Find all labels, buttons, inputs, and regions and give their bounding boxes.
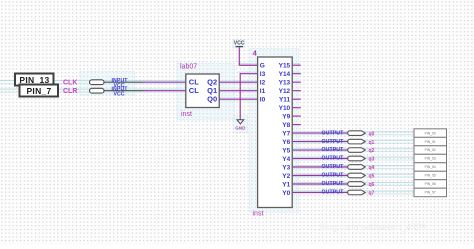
svg-text:I2: I2 [260,80,266,87]
svg-text:inst: inst [253,210,264,217]
svg-text:Y11: Y11 [279,97,291,104]
wire guide CLK row [0,64,446,191]
svg-text:Y14: Y14 [279,71,291,78]
svg-text:blog.csdn.net/weixin_4399: blog.csdn.net/weixin_4399 [320,222,426,232]
svg-text:PIN_7: PIN_7 [26,86,51,96]
svg-text:VCC: VCC [114,92,125,98]
output pin q2 [322,147,375,154]
svg-text:OUTPUT: OUTPUT [322,139,345,145]
svg-text:q6: q6 [369,182,375,188]
output pin q3 [322,156,375,163]
svg-text:lab07: lab07 [180,64,197,71]
wire GND to I3 [240,74,257,120]
wire CLK to lab07 [143,81,186,83]
pin assignment box PIN_53 for q3 [414,154,447,163]
svg-text:OUTPUT: OUTPUT [322,181,345,187]
svg-text:q7: q7 [369,191,375,197]
svg-text:CL: CL [189,86,199,95]
svg-text:Y3: Y3 [282,164,290,171]
wire Y0 to output q7 [292,191,349,193]
svg-text:VCC: VCC [234,41,245,47]
svg-text:PIN_53: PIN_53 [425,157,436,161]
svg-text:PIN_51: PIN_51 [425,140,436,144]
pin assignment box PIN_57 for q7 [414,188,447,197]
pin assignment box PIN_55 for q5 [414,171,447,180]
svg-text:PIN_55: PIN_55 [425,174,436,178]
svg-text:PIN_52: PIN_52 [425,148,436,152]
svg-text:Y1: Y1 [282,181,290,188]
svg-text:PIN_56: PIN_56 [425,182,436,186]
selection box inputs [80,40,299,213]
block decoder U2 [253,57,293,217]
svg-text:I3: I3 [260,71,266,78]
stub Y8 [292,124,301,126]
wire Y6 to output q1 [292,141,349,143]
svg-text:OUTPUT: OUTPUT [322,164,345,170]
pin assignment box PIN_54 for q4 [414,163,447,172]
svg-text:Q0: Q0 [207,95,217,104]
svg-text:q5: q5 [369,174,375,180]
wire Q1-I1 [219,90,257,92]
svg-text:GND: GND [235,125,246,130]
output pin q1 [322,139,375,146]
svg-text:PIN_50: PIN_50 [425,131,436,135]
svg-text:PIN_54: PIN_54 [425,165,436,169]
svg-text:OUTPUT: OUTPUT [322,190,345,196]
svg-text:Y0: Y0 [282,190,290,197]
output pin q4 [322,164,375,171]
wire Y7 to output q0 [292,132,349,134]
wire Y1 to output q6 [292,183,349,185]
svg-text:Y4: Y4 [282,156,290,163]
svg-text:Y12: Y12 [279,88,291,95]
output pin q6 [322,181,375,188]
svg-text:I0: I0 [260,97,266,104]
input pin CLK [90,78,144,89]
pin assignment box PIN_7 [20,85,59,97]
wire guide lines lower edges [0,81,446,194]
stub Y15 [292,64,301,66]
stub Y13 [292,81,301,83]
svg-text:OUTPUT: OUTPUT [322,130,345,136]
output pin q0 [322,130,375,137]
pin assignment box PIN_50 for q0 [414,129,447,138]
VCC power symbol [234,41,245,47]
svg-text:PIN_57: PIN_57 [425,191,436,195]
svg-text:q0: q0 [369,131,375,137]
svg-text:CLK: CLK [63,79,77,86]
stub Y12 [292,90,301,92]
svg-text:CLR: CLR [63,88,77,95]
wire Q2-I2 [219,81,257,83]
wire Y2 to output q5 [292,175,349,177]
svg-text:q4: q4 [369,165,375,171]
stub Y14 [292,73,301,75]
svg-text:q1: q1 [369,140,375,146]
stub Y10 [292,107,301,109]
svg-text:inst: inst [181,111,192,118]
svg-text:Y5: Y5 [282,148,290,155]
wire Y3 to output q4 [292,166,349,168]
svg-text:Y15: Y15 [279,63,291,70]
svg-text:Y9: Y9 [282,114,290,121]
output pin q7 [322,190,375,197]
pin assignment box PIN_13 [15,74,54,86]
wire Y5 to output q2 [292,149,349,151]
svg-text:q2: q2 [369,148,375,154]
input pin CLR [90,87,144,98]
svg-text:Y7: Y7 [282,131,290,138]
svg-text:Y10: Y10 [279,105,291,112]
stub Y9 [292,115,301,117]
svg-text:I1: I1 [260,88,266,95]
svg-text:Y8: Y8 [282,122,290,129]
ground [235,120,246,131]
block lab07 U1 [180,64,219,119]
pin assignment box PIN_56 for q6 [414,180,447,189]
svg-text:G: G [260,63,265,70]
wire VCC to G [239,47,257,65]
output pin q5 [322,173,375,180]
stub Y11 [292,98,301,100]
svg-text:Y2: Y2 [282,173,290,180]
svg-text:OUTPUT: OUTPUT [322,173,345,179]
svg-text:OUTPUT: OUTPUT [322,156,345,162]
svg-text:Y13: Y13 [279,80,291,87]
wire CLR to lab07 [143,90,186,92]
pin assignment box PIN_52 for q2 [414,146,447,155]
wire Q0-I0 [219,98,257,100]
svg-text:OUTPUT: OUTPUT [322,147,345,153]
svg-text:Y6: Y6 [282,139,290,146]
wire Y4 to output q3 [292,158,349,160]
svg-text:q3: q3 [369,157,375,163]
pin assignment box PIN_51 for q1 [414,137,447,146]
